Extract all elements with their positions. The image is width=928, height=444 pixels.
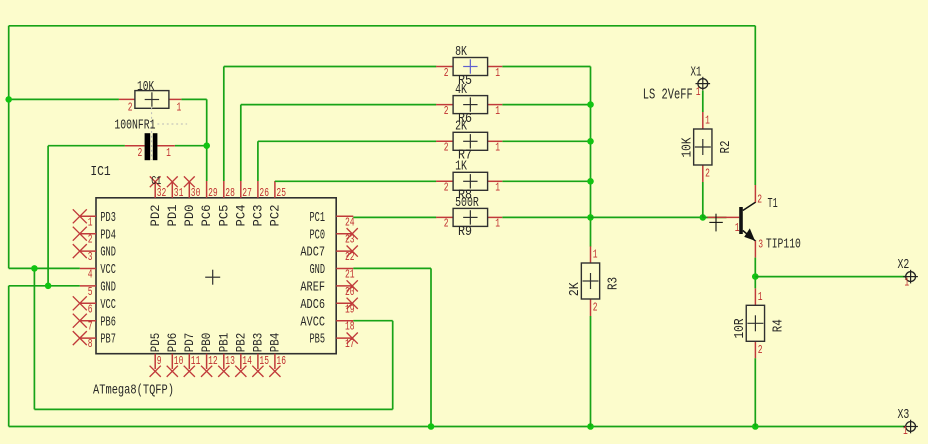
svg-text:29: 29: [208, 187, 218, 200]
svg-text:VCC: VCC: [100, 262, 116, 278]
svg-text:R2: R2: [718, 141, 734, 154]
svg-text:2: 2: [138, 147, 143, 160]
svg-text:3: 3: [758, 239, 763, 252]
svg-text:1: 1: [705, 115, 710, 128]
svg-text:14: 14: [242, 355, 252, 368]
svg-text:12: 12: [208, 355, 218, 368]
svg-text:PB7: PB7: [100, 332, 116, 348]
svg-text:1: 1: [166, 147, 171, 160]
svg-text:2K: 2K: [455, 119, 467, 135]
svg-text:PC6: PC6: [199, 205, 214, 227]
svg-text:ATmega8(TQFP): ATmega8(TQFP): [93, 383, 174, 399]
svg-text:11: 11: [191, 355, 201, 368]
svg-text:2: 2: [444, 218, 449, 231]
svg-text:2: 2: [757, 193, 762, 206]
svg-text:PD0: PD0: [182, 205, 197, 227]
svg-text:PC5: PC5: [216, 205, 231, 227]
svg-text:100NFR1: 100NFR1: [114, 117, 155, 133]
svg-text:30: 30: [191, 187, 201, 200]
svg-text:GND: GND: [310, 262, 326, 278]
svg-text:10: 10: [174, 355, 184, 368]
svg-text:PC2: PC2: [268, 205, 283, 227]
svg-text:IC1: IC1: [90, 164, 110, 180]
svg-text:VCC: VCC: [100, 297, 116, 313]
svg-text:2: 2: [444, 105, 449, 118]
svg-text:1: 1: [495, 67, 500, 80]
svg-text:13: 13: [225, 355, 235, 368]
svg-text:R3: R3: [606, 277, 622, 290]
svg-text:PB6: PB6: [100, 314, 116, 330]
svg-text:GND: GND: [100, 245, 116, 261]
svg-text:2: 2: [705, 168, 710, 181]
svg-text:1: 1: [495, 182, 500, 195]
svg-text:28: 28: [225, 187, 235, 200]
svg-text:31: 31: [174, 187, 184, 200]
svg-text:1: 1: [495, 218, 500, 231]
svg-text:TIP110: TIP110: [766, 237, 801, 253]
svg-text:2: 2: [593, 302, 598, 315]
svg-text:1: 1: [904, 276, 909, 289]
svg-text:21: 21: [345, 269, 355, 282]
svg-text:PD7: PD7: [182, 333, 197, 353]
svg-text:PD3: PD3: [100, 210, 116, 226]
svg-text:X3: X3: [898, 407, 910, 423]
svg-text:PD2: PD2: [148, 205, 163, 227]
svg-text:R4: R4: [770, 319, 786, 332]
svg-text:PC4: PC4: [233, 204, 248, 226]
svg-text:10K: 10K: [679, 137, 695, 157]
svg-text:PC3: PC3: [251, 205, 266, 227]
svg-text:1K: 1K: [455, 159, 467, 175]
svg-text:26: 26: [259, 187, 269, 200]
svg-text:T1: T1: [768, 196, 778, 212]
svg-text:2: 2: [758, 344, 763, 357]
svg-text:2: 2: [444, 67, 449, 80]
svg-text:1: 1: [696, 86, 701, 99]
svg-text:PD4: PD4: [100, 227, 116, 243]
svg-text:16: 16: [276, 355, 286, 368]
svg-text:10R: 10R: [732, 318, 748, 338]
svg-text:PC1: PC1: [310, 210, 326, 226]
svg-text:15: 15: [259, 355, 269, 368]
svg-text:500R: 500R: [455, 195, 479, 211]
svg-text:1: 1: [495, 142, 500, 155]
svg-text:7: 7: [88, 321, 93, 334]
svg-text:GND: GND: [100, 280, 116, 296]
svg-text:2: 2: [88, 234, 93, 247]
svg-text:18: 18: [345, 321, 355, 334]
svg-text:PB0: PB0: [199, 333, 214, 353]
svg-text:PB2: PB2: [233, 333, 248, 353]
svg-text:24: 24: [345, 216, 355, 229]
svg-text:X1: X1: [691, 65, 702, 81]
svg-text:25: 25: [276, 187, 286, 200]
svg-text:10K: 10K: [137, 79, 155, 95]
svg-text:PC0: PC0: [310, 227, 326, 243]
svg-text:1: 1: [903, 425, 908, 438]
svg-text:1: 1: [495, 105, 500, 118]
svg-text:1: 1: [593, 249, 598, 262]
svg-text:4K: 4K: [455, 82, 467, 98]
svg-text:6: 6: [88, 303, 93, 316]
svg-text:X2: X2: [898, 257, 910, 273]
svg-text:1: 1: [758, 291, 763, 304]
svg-text:27: 27: [242, 187, 252, 200]
svg-text:R9: R9: [458, 224, 472, 240]
svg-text:2: 2: [444, 142, 449, 155]
svg-text:AREF: AREF: [300, 280, 325, 296]
svg-text:C1: C1: [151, 174, 161, 188]
svg-text:ADC6: ADC6: [300, 297, 325, 313]
svg-text:1: 1: [735, 222, 740, 235]
svg-text:PD6: PD6: [165, 333, 180, 353]
svg-text:32: 32: [157, 187, 167, 200]
svg-text:4: 4: [88, 269, 93, 282]
svg-text:PB1: PB1: [216, 333, 231, 353]
svg-text:PD1: PD1: [165, 204, 180, 226]
svg-text:PD5: PD5: [148, 333, 163, 353]
svg-text:1: 1: [177, 102, 182, 115]
svg-text:2: 2: [444, 182, 449, 195]
svg-text:8K: 8K: [455, 44, 467, 60]
svg-text:PB5: PB5: [310, 332, 326, 348]
svg-text:8: 8: [88, 338, 93, 351]
svg-text:LS 2VeFF: LS 2VeFF: [643, 87, 693, 104]
svg-text:3: 3: [88, 251, 93, 264]
svg-text:2: 2: [128, 102, 133, 115]
svg-text:AVCC: AVCC: [300, 314, 325, 330]
svg-text:ADC7: ADC7: [300, 245, 325, 261]
svg-text:2K: 2K: [567, 282, 583, 296]
svg-text:PB3: PB3: [251, 333, 266, 353]
svg-text:PB4: PB4: [268, 333, 283, 353]
svg-text:1: 1: [88, 216, 93, 229]
svg-text:5: 5: [88, 286, 93, 299]
